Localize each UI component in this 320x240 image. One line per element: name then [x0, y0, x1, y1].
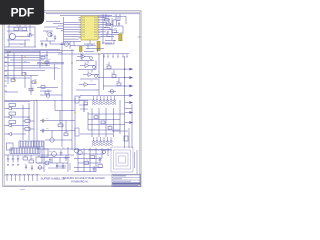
transistor Q8: [52, 152, 57, 157]
shield box nest 1: [111, 147, 133, 172]
diode arrow D3: [129, 85, 133, 88]
resistor R35: [84, 102, 88, 104]
wire P2: [5, 116, 31, 118]
wire mesh center right lower: [80, 114, 125, 134]
capacitor C20: [118, 22, 120, 26]
test point row TP1-TP8: [6, 175, 39, 182]
junction dot J5: [24, 75, 26, 77]
wire center trunk verticals: [62, 42, 75, 150]
border pin ticks left: [4, 53, 7, 91]
transistor Q7: [50, 138, 54, 142]
wire arrow row a: [125, 102, 129, 104]
wire right mid row: [112, 130, 128, 132]
wire arrow row c: [125, 122, 129, 124]
resistor R27: [9, 104, 16, 107]
page background: [0, 0, 149, 198]
resistor pack RN3 (yellow): [80, 47, 83, 52]
junction dot J12: [61, 50, 63, 52]
resistor R18: [90, 156, 95, 159]
title block frame: [112, 174, 141, 186]
coil L13: [110, 137, 113, 146]
resistor R33: [29, 160, 34, 163]
junction dot J11: [74, 112, 76, 114]
wires mid bottom rows: [40, 111, 75, 141]
wires bottom-left stubs: [25, 155, 39, 160]
wires coil input cluster: [79, 100, 92, 112]
diode arrow D4: [129, 94, 133, 97]
resistor R8: [41, 56, 45, 59]
tick mark right border: [138, 36, 142, 38]
wires small right column: [108, 62, 119, 92]
wire bus out of U1 right: [101, 18, 119, 37]
wire right margin vertical: [135, 150, 138, 174]
relay K1 open box: [7, 143, 14, 150]
coil L8: [92, 137, 95, 146]
capacitor C21: [107, 31, 109, 34]
capacitor C7: [17, 155, 19, 166]
wires left lower verticals: [23, 100, 37, 150]
wire trunk right column: [124, 56, 126, 148]
junction dot J9: [35, 100, 37, 102]
wires right bottom column: [125, 104, 132, 148]
coil L4: [103, 96, 106, 105]
resistor R26: [117, 83, 121, 86]
resistor R7: [32, 81, 36, 84]
coil L3: [99, 96, 102, 105]
connector P4 arrow: [8, 132, 12, 135]
coil L7: [113, 96, 116, 105]
capacitor C4: [42, 129, 44, 134]
resistor R13: [64, 133, 68, 136]
junction dot J2: [21, 36, 23, 38]
capacitor C1: [27, 33, 34, 37]
wire rail below coils2: [88, 149, 112, 151]
transistor Q2 pre-driver: [48, 33, 52, 37]
wires bottom center verticals: [78, 148, 108, 172]
junction dot J13: [71, 62, 73, 64]
diode arrow D6: [129, 111, 133, 114]
resistor R2: [22, 27, 27, 30]
capacitor C3: [42, 119, 44, 124]
resistor R28: [9, 112, 16, 115]
junction dot J10: [43, 120, 45, 122]
transistor Q10: [78, 150, 82, 154]
resistor R32: [23, 157, 28, 160]
connector CN1 comb: [19, 141, 44, 147]
resistor R12a: [45, 91, 49, 94]
transistor Q9: [45, 161, 49, 165]
capacitor C12: [65, 155, 68, 161]
resistor R5: [11, 79, 15, 82]
op-amp U2: [77, 55, 90, 59]
wire P3: [5, 125, 29, 127]
junction dots trunk: [124, 69, 125, 70]
sheet border inner frame: [4, 12, 139, 185]
wire row to arrow 3: [103, 85, 129, 87]
op-amp U5: [79, 83, 96, 87]
svg-text:KASURU AO AKE KYAHE GASHO: KASURU AO AKE KYAHE GASHO: [63, 176, 105, 180]
resistor R23: [112, 30, 117, 33]
IC U1 main processor: [81, 16, 98, 40]
connector P1 arrow: [8, 107, 12, 110]
wires bottom center horizontals: [74, 150, 111, 172]
resistor R11: [41, 86, 45, 89]
capacitor C15: [41, 42, 43, 47]
wire mesh left rows upper: [5, 49, 75, 78]
wires pre-driver block: [40, 27, 58, 44]
wires op-amp block: [76, 54, 104, 95]
capacitor C19: [93, 166, 96, 172]
IC U1 left pin stubs: [79, 18, 82, 38]
resistor network RN2 (olive): [119, 34, 122, 41]
caption mark below sheet: [20, 189, 25, 191]
connector CN2 comb: [10, 148, 40, 154]
wire P4: [5, 133, 27, 135]
shield box nest 4: [119, 156, 126, 163]
resistor R34: [98, 165, 103, 168]
coil L12: [106, 137, 109, 146]
wire rail left lower double: [5, 100, 37, 101]
svg-text:SUPER KABEL 3D: SUPER KABEL 3D: [41, 177, 65, 181]
wire row to arrow 2: [98, 77, 129, 79]
resistor R12: [58, 124, 63, 127]
op-amp U4: [83, 73, 99, 77]
capacitor C24: [62, 163, 64, 169]
diode arrow D1: [129, 68, 133, 71]
resistor R29: [9, 121, 16, 124]
wire rail mid horizontal: [36, 100, 88, 102]
diode arrow D7: [129, 121, 133, 124]
op-amp U3: [80, 64, 95, 68]
transformer T2: [74, 148, 79, 153]
svg-text:AYASHARO NI: AYASHARO NI: [71, 181, 88, 184]
wires left lower bits: [5, 88, 62, 96]
capacitor C18: [31, 165, 33, 171]
resistor R20: [105, 19, 110, 22]
filter F1 box: [75, 96, 79, 103]
transformer T1: [42, 149, 48, 157]
hanging caps on rail: [103, 54, 128, 57]
wires bottom mid-left: [37, 147, 74, 172]
transistor Q14: [95, 75, 98, 78]
wires top right extra: [104, 14, 123, 44]
wire top rail: [46, 14, 140, 16]
capacitor C16: [45, 43, 47, 48]
resistor R25: [112, 75, 116, 78]
wire distribution rail top right: [101, 53, 129, 55]
junction dot J6: [14, 80, 16, 82]
coil L10: [99, 137, 102, 146]
junction dot J8: [31, 89, 33, 91]
wires input stage: [5, 25, 37, 47]
wires mid bottom verticals: [52, 101, 66, 138]
shield box nest 3: [116, 153, 128, 166]
resistor R19: [84, 162, 89, 165]
wire power rail bottom: [5, 154, 75, 156]
transistor Q12: [90, 57, 93, 60]
wire rail above coils: [79, 96, 81, 99]
capacitor C14: [54, 35, 56, 40]
capacitor C5: [7, 155, 9, 166]
component value labels (tiny text marks): [10, 17, 123, 164]
resistor R17: [124, 136, 128, 141]
resistor R21: [106, 23, 111, 26]
title block text rows: [113, 176, 131, 181]
wire P1: [5, 108, 31, 110]
resistor R1: [14, 27, 19, 30]
resistor R30: [25, 120, 30, 123]
title block dark row: [112, 183, 140, 185]
junction dot J1: [9, 51, 11, 53]
wire mesh verticals center right: [84, 100, 120, 137]
resistor pack RN1 below U1 (yellow): [97, 42, 100, 51]
wire mesh left verticals: [8, 51, 54, 96]
coil L5: [106, 96, 109, 105]
coil L1: [92, 96, 95, 105]
resistor R22: [113, 20, 117, 26]
resistor R9: [45, 61, 49, 64]
transistor Q6: [110, 90, 114, 94]
wires below U1: [58, 40, 104, 54]
wire row to arrow 1: [104, 68, 129, 70]
title block row rules: [112, 178, 141, 185]
capacitor C23: [56, 163, 58, 169]
IC U1 right pin stubs: [98, 18, 101, 38]
filter F2 box: [75, 128, 79, 136]
transistor Q13: [93, 66, 96, 69]
resistor R31: [25, 128, 30, 131]
wire arrow row b: [125, 112, 129, 114]
resistor R24: [107, 66, 111, 69]
junction dot J14: [98, 53, 100, 55]
wire pair center-left: [37, 63, 64, 64]
wire row to arrow 4: [80, 95, 129, 97]
resistor R6: [22, 73, 26, 76]
diode arrow D5: [129, 101, 133, 104]
connector P3 arrow: [8, 124, 12, 127]
IC U1 pin label text rows: [82, 18, 97, 37]
capacitor C13: [99, 157, 102, 163]
svg-text:PDF: PDF: [11, 5, 34, 19]
capacitor C6: [12, 155, 14, 166]
resistor R14: [94, 116, 98, 119]
coil L2: [96, 96, 99, 105]
junction dot J4: [42, 62, 44, 64]
PDF badge: [0, 0, 44, 25]
transistor Q5 below U1: [64, 42, 68, 46]
coil L9: [96, 137, 99, 146]
capacitor C17: [25, 164, 27, 170]
wires left cluster mid: [23, 121, 34, 129]
capacitor C22: [49, 158, 51, 164]
wires lower mid extras: [37, 163, 70, 170]
coil L11: [103, 137, 106, 146]
inner bottom rule: [4, 174, 139, 176]
transistor Q15: [38, 166, 42, 170]
wire bus into U1 left: [64, 22, 82, 41]
connector P2 arrow: [8, 115, 12, 118]
capacitor C2: [50, 32, 52, 37]
resistor R15: [101, 121, 105, 124]
shield box nest 2: [114, 150, 131, 169]
title block bottom text: [113, 185, 138, 187]
crystal X1 open box: [36, 157, 42, 163]
resistor R10: [29, 88, 33, 91]
transistor Q16: [102, 150, 105, 153]
resistor R16: [108, 127, 112, 130]
wires top right cluster: [98, 14, 126, 44]
sheet border outer frame: [3, 11, 141, 187]
wire bus feeder vertical: [46, 17, 70, 49]
coil L6: [110, 96, 113, 105]
transistor Q11: [46, 94, 50, 98]
capacitor C11: [60, 150, 63, 156]
junction dot J7: [34, 81, 36, 83]
transistor Q1 input stage: [10, 34, 16, 40]
diode arrow D2: [129, 76, 133, 79]
junction dot J3: [24, 56, 26, 58]
